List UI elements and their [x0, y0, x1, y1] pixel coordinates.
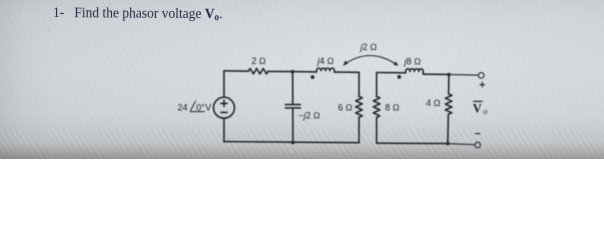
wire: loop2 left vertical above resistor 8ohm — [376, 73, 378, 97]
resistor 2ohm — [249, 69, 269, 74]
wire: loop2 top, corner to inductor j8 — [377, 72, 406, 74]
resistor 6 ohm — [356, 96, 363, 117]
wire: loop1 right vertical below resistor 6ohm — [358, 117, 360, 142]
mutual inductance arrow j2 ohm — [343, 56, 398, 66]
resistor 4 ohm branch lower wire — [447, 114, 450, 143]
node A junction dot (top of capacitor branch) — [291, 70, 295, 74]
wire: capacitor branch lower — [292, 108, 294, 143]
label Vo output voltage — [473, 101, 488, 116]
capacitor -j2 ohm plates — [285, 105, 300, 108]
junction dot bottom of capacitor branch — [291, 141, 295, 145]
faint speck below title — [49, 28, 51, 30]
wire: loop2 left vertical below resistor 8ohm — [376, 117, 378, 143]
wire: loop1 bottom — [224, 142, 359, 143]
svg-text:V: V — [473, 101, 482, 115]
coupling dot for j4 — [311, 75, 315, 79]
wire: capacitor branch upper — [292, 72, 294, 105]
wire: loop1 right vertical above resistor 6ohm — [358, 72, 360, 96]
inductor j8 ohm — [406, 69, 424, 74]
wire: resistor 2ohm to node A — [268, 70, 293, 72]
svg-text:j2 Ω: j2 Ω — [360, 42, 378, 52]
svg-text:2 Ω: 2 Ω — [252, 56, 267, 66]
wire: inductor j4 to loop1 right corner — [334, 71, 359, 73]
label + at top terminal — [480, 82, 486, 88]
svg-text:j4 Ω: j4 Ω — [317, 56, 335, 66]
label 24&#8736;0&#176; V for source — [178, 101, 212, 113]
svg-text:6 Ω: 6 Ω — [338, 103, 353, 113]
resistor 4 ohm — [445, 94, 452, 114]
svg-text:8 Ω: 8 Ω — [385, 103, 400, 113]
source Vs circle 24&#8736;0&#176; V — [214, 97, 235, 118]
svg-text:j8 Ω: j8 Ω — [404, 57, 422, 67]
resistor 4 ohm branch upper wire — [448, 75, 450, 95]
label minus at bottom terminal — [475, 133, 480, 135]
wire: loop1 top-left vertical above source — [223, 71, 225, 97]
wire: inductor j8 to node B — [423, 73, 449, 75]
svg-text:4 Ω: 4 Ω — [426, 98, 441, 108]
wire: node A to inductor j4 — [293, 71, 317, 73]
title text — [53, 4, 223, 27]
wire: loop1 left vertical below source — [223, 118, 225, 141]
wire: node B to top terminal — [449, 74, 478, 77]
coupling dot for j8 — [397, 75, 401, 79]
svg-text:24: 24 — [178, 103, 188, 113]
wire: loop2 bottom — [377, 142, 448, 144]
resistor 8 ohm — [373, 96, 380, 117]
junction dot bottom of 4ohm branch — [446, 142, 450, 146]
svg-text:−j2 Ω: −j2 Ω — [299, 111, 321, 121]
wire: loop1 top, source to resistor R 2ohm — [224, 70, 249, 72]
svg-text:0°: 0° — [196, 103, 205, 113]
top terminal open circle — [478, 73, 484, 79]
svg-text:V: V — [205, 103, 211, 113]
bottom terminal open circle — [475, 142, 481, 148]
node B junction dot (top of 4ohm branch) — [447, 73, 451, 77]
wire: bottom junction to bottom terminal — [448, 144, 475, 145]
inductor j4 ohm — [317, 68, 335, 72]
svg-text:o: o — [483, 106, 487, 116]
